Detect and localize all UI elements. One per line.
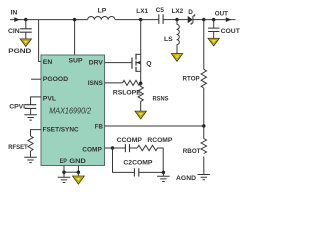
svg-text:IN: IN xyxy=(11,9,18,16)
node junction GND xyxy=(77,171,80,174)
svg-text:GND: GND xyxy=(69,158,86,165)
capacitor CCOMP xyxy=(125,144,129,152)
wire RCOMP corner down xyxy=(158,148,164,172)
wire ISNS stub xyxy=(105,82,123,84)
node junction comp ground xyxy=(162,171,165,174)
svg-text:CPVL: CPVL xyxy=(9,103,27,110)
wire FB xyxy=(105,125,204,127)
ground earth AGND xyxy=(198,175,211,180)
transistor Q channel bar xyxy=(135,54,137,72)
OUT arrowhead xyxy=(226,17,232,22)
svg-text:RSLOPE: RSLOPE xyxy=(113,89,141,96)
svg-text:C5: C5 xyxy=(156,7,165,14)
wire RTOP to FB node xyxy=(203,88,205,126)
wire drain-source vertical xyxy=(140,20,142,84)
transistor Q drain stub xyxy=(136,53,141,55)
svg-text:FB: FB xyxy=(95,124,103,131)
wire RBOT to AGND xyxy=(203,157,205,175)
svg-text:OUT: OUT xyxy=(215,11,229,18)
IN arrowhead xyxy=(14,17,19,22)
node LX1 junction xyxy=(139,18,142,21)
diode D xyxy=(188,16,193,23)
resistor RSLOPE xyxy=(123,80,141,85)
wire EP stub xyxy=(63,166,65,173)
transistor Q body stub xyxy=(136,62,141,64)
wire COMP stub xyxy=(105,147,113,149)
svg-text:Q: Q xyxy=(146,61,151,68)
capacitor CIN xyxy=(20,29,32,32)
wire OUT node down to RTOP xyxy=(203,20,205,70)
svg-text:RSNS: RSNS xyxy=(153,96,169,103)
capacitor CPVL xyxy=(25,105,36,109)
wire C2COMP branch left xyxy=(113,148,135,172)
resistor RBOT xyxy=(201,126,206,154)
wire to COUT node xyxy=(204,19,214,21)
resistor RFSET xyxy=(28,136,33,151)
ground earth below comp network xyxy=(157,172,170,181)
wire LX2 to diode xyxy=(177,19,188,21)
svg-text:DRV: DRV xyxy=(89,59,103,66)
wire CIN to PGND xyxy=(25,32,27,39)
capacitor COUT xyxy=(208,20,219,32)
ground earth below EP xyxy=(58,172,71,182)
resistor RCOMP xyxy=(137,145,157,150)
wire SUP from rail xyxy=(74,20,76,55)
wire DRV to gate xyxy=(105,62,133,64)
svg-text:LX1: LX1 xyxy=(136,8,148,15)
ground PGND triangle xyxy=(20,39,31,47)
wire CPVL to ground xyxy=(30,108,32,114)
wire LX1 to C5 xyxy=(141,19,159,21)
svg-text:CIN: CIN xyxy=(8,28,20,35)
inductor LS xyxy=(177,20,180,54)
svg-text:C2COMP: C2COMP xyxy=(123,159,153,166)
resistor RTOP xyxy=(201,69,206,88)
svg-text:RTOP: RTOP xyxy=(183,76,201,83)
op-amp U1 MAX16990/2 IC body xyxy=(41,55,105,166)
wire FSET stub xyxy=(31,130,42,136)
wire PVL stub xyxy=(31,97,41,105)
svg-text:RBOT: RBOT xyxy=(183,148,201,155)
node junction source xyxy=(139,82,142,85)
capacitor C2COMP xyxy=(134,168,138,176)
svg-text:COMP: COMP xyxy=(82,146,102,153)
node junction EP xyxy=(62,171,65,174)
svg-text:RCOMP: RCOMP xyxy=(147,137,172,144)
svg-text:LS: LS xyxy=(164,36,173,43)
svg-text:PGND: PGND xyxy=(8,48,31,55)
svg-text:EN: EN xyxy=(43,59,53,66)
svg-text:EP: EP xyxy=(60,158,68,165)
svg-text:LX2: LX2 xyxy=(172,8,184,15)
capacitor C5 xyxy=(159,14,163,24)
node junction RTOP branch xyxy=(202,18,205,21)
node junction CIN xyxy=(24,18,27,21)
transistor Q source stub xyxy=(136,70,141,72)
wire COMP to CCOMP xyxy=(113,147,126,149)
node junction SUP xyxy=(73,18,76,21)
wire LP to LX1 xyxy=(115,19,141,21)
wire CIN branch xyxy=(25,20,27,29)
svg-text:MAX16990/2: MAX16990/2 xyxy=(49,107,92,116)
transistor Q body arrow xyxy=(136,61,140,64)
node LX2 junction xyxy=(175,18,178,21)
wire C2COMP to node xyxy=(139,171,164,173)
wire COUT to ground xyxy=(213,32,215,39)
wire C5 to LX2 xyxy=(163,19,177,21)
svg-text:LP: LP xyxy=(98,7,107,14)
transistor Q gate bar xyxy=(131,58,133,69)
node junction FB xyxy=(202,124,205,127)
node junction COMP xyxy=(111,146,114,149)
ground triangle below COUT xyxy=(208,38,219,46)
svg-text:FSET/SYNC: FSET/SYNC xyxy=(43,127,79,134)
svg-text:CCOMP: CCOMP xyxy=(117,137,143,144)
node junction COUT xyxy=(212,18,215,21)
ground earth below RFSET xyxy=(24,157,37,162)
svg-text:COUT: COUT xyxy=(221,28,241,35)
wire IN input lead xyxy=(10,19,26,21)
wire CCOMP to RCOMP xyxy=(130,147,138,149)
wire EN from rail xyxy=(39,20,41,62)
svg-text:ISNS: ISNS xyxy=(88,80,104,87)
ground triangle below GND xyxy=(73,172,85,184)
svg-text:PGOOD: PGOOD xyxy=(43,76,68,83)
svg-text:SUP: SUP xyxy=(69,57,83,64)
resistor RSNS xyxy=(138,83,143,111)
wire EP-GND link xyxy=(64,171,78,173)
wire OUT lead xyxy=(214,19,236,21)
inductor LP xyxy=(88,16,115,19)
svg-text:D: D xyxy=(188,9,193,16)
wire PGOOD stub xyxy=(31,78,41,80)
ground triangle below LS xyxy=(171,54,182,62)
svg-text:AGND: AGND xyxy=(176,175,196,182)
svg-text:PVL: PVL xyxy=(43,96,56,103)
wire RFSET to ground xyxy=(30,151,32,157)
wire top rail to LP xyxy=(26,19,88,21)
svg-text:RFSET: RFSET xyxy=(8,144,28,151)
ground triangle below RSNS xyxy=(135,111,146,119)
ground earth below CPVL xyxy=(24,115,37,120)
wire diode to OUT node xyxy=(193,19,204,21)
wire GND stub xyxy=(77,166,79,173)
